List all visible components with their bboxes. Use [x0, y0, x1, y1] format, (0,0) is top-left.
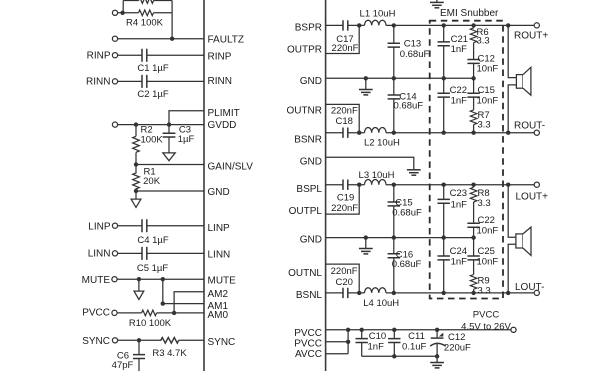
wire GND right1 rail [326, 77, 475, 79]
resistor R5 (partially cut at top) [123, 0, 172, 3]
svg-text:1nF: 1nF [451, 96, 468, 107]
capacitor C2 [142, 75, 147, 88]
wire speaker R bottom drop [508, 85, 516, 133]
capacitor C12 electrolytic [430, 330, 446, 357]
svg-text:0.68uF: 0.68uF [392, 208, 422, 219]
terminal SYNC [112, 338, 117, 343]
svg-text:PVCC: PVCC [82, 308, 110, 319]
capacitor C6 [133, 340, 145, 371]
wire PVCC to R10 [117, 312, 142, 314]
node C21 bottom junction [442, 76, 446, 80]
wire BSNL [326, 292, 343, 294]
op-amp U1 IC body right edge [325, 0, 327, 371]
terminal PVCC left [112, 310, 117, 315]
capacitor C16 [388, 238, 400, 293]
node C21 top junction [442, 23, 446, 27]
wire C19 to L3 [348, 184, 365, 186]
svg-text:OUTNR: OUTNR [286, 106, 322, 117]
wire RINN right [147, 80, 204, 82]
svg-text:RINP: RINP [87, 51, 111, 62]
node C11 top junction [392, 328, 396, 332]
terminal FAULTZ [112, 36, 117, 41]
wire GND right3 rail [326, 237, 475, 239]
wire R5 left vertical [122, 1, 124, 13]
capacitor C15 snubber [467, 78, 479, 110]
node C11 bottom junction [392, 354, 396, 358]
node GAIN/R1 junction [134, 162, 138, 166]
node OUTNL/BSNL junction [357, 291, 361, 295]
capacitor C4 [142, 219, 147, 232]
svg-text:1nF: 1nF [451, 257, 468, 268]
capacitor C25 [467, 238, 479, 275]
wire caps ground rail [362, 355, 437, 357]
node GND rail gnd junction [364, 76, 368, 80]
node C10 top junction [360, 328, 364, 332]
wire GAIN/SLV [136, 164, 204, 166]
svg-text:C1 1µF: C1 1µF [137, 63, 169, 74]
wire MUTE to AM1 vertical [162, 279, 164, 303]
inductor L1 [365, 20, 387, 25]
wire OUTNL jog [326, 264, 360, 293]
svg-text:GND: GND [300, 157, 322, 168]
svg-text:3.3: 3.3 [477, 36, 490, 47]
wire AM2 [174, 292, 204, 313]
svg-text:L2 10uH: L2 10uH [364, 138, 400, 149]
svg-text:SYNC: SYNC [82, 336, 110, 347]
wire GND left [136, 190, 204, 192]
svg-text:OUTPL: OUTPL [289, 206, 323, 217]
svg-text:L3 10uH: L3 10uH [359, 170, 395, 181]
svg-text:1µF: 1µF [178, 134, 195, 145]
wire OUTPR jog [326, 25, 360, 53]
svg-text:SYNC: SYNC [208, 337, 236, 348]
node C22 bottom junction [442, 131, 446, 135]
node speaker L top junction [506, 183, 510, 187]
svg-text:OUTPR: OUTPR [287, 45, 322, 56]
svg-text:LOUT-: LOUT- [515, 282, 544, 293]
EMI snubber dashed box [430, 21, 503, 299]
wire L1 to ROUT+ [386, 24, 534, 26]
wire BSNR [326, 132, 343, 134]
wire R10 to AM0 [157, 312, 175, 314]
wire SYNC left [118, 339, 162, 341]
svg-text:C15: C15 [395, 197, 412, 208]
node GVDD/R2 junction [134, 122, 138, 126]
wire BSPR [326, 24, 343, 26]
capacitor C10 [356, 330, 368, 357]
wire AM0 right [174, 312, 204, 314]
terminal MUTE [112, 277, 117, 282]
svg-text:BSNR: BSNR [294, 134, 322, 145]
svg-text:GND: GND [208, 187, 230, 198]
svg-text:C22: C22 [478, 215, 495, 226]
svg-text:RINN: RINN [208, 76, 232, 87]
svg-text:L1 10uH: L1 10uH [360, 8, 396, 19]
C12 polarity mark [439, 333, 444, 337]
node speaker R top junction [506, 23, 510, 27]
ground top-right symbol [430, 0, 444, 8]
node C14 bottom junction [392, 131, 396, 135]
wire GVDD [118, 124, 204, 126]
wire L2 to ROUT- [386, 132, 534, 134]
svg-text:R10 100K: R10 100K [129, 318, 172, 329]
node GND3 gnd junction [364, 235, 368, 239]
inductor L4 [365, 288, 387, 293]
svg-text:AM0: AM0 [208, 310, 229, 321]
terminal top-left [112, 10, 117, 15]
svg-text:C18: C18 [335, 116, 352, 127]
svg-text:0.1uF: 0.1uF [402, 341, 426, 352]
node C24 bottom junction [442, 291, 446, 295]
svg-text:LOUT+: LOUT+ [516, 192, 549, 203]
svg-text:10nF: 10nF [477, 96, 499, 107]
svg-text:AM2: AM2 [208, 289, 229, 300]
svg-text:3.3: 3.3 [478, 198, 491, 209]
svg-text:220nF: 220nF [332, 43, 359, 54]
wire C17 to L1 node [348, 24, 365, 26]
wire PVCC2 [326, 341, 349, 343]
node C15 top junction [392, 183, 396, 187]
ground MUTE triangle [134, 279, 144, 299]
node R9 bottom junction [471, 291, 475, 295]
svg-text:C24: C24 [450, 246, 467, 257]
svg-text:FAULTZ: FAULTZ [208, 34, 244, 45]
svg-text:3.3: 3.3 [478, 120, 491, 131]
node MUTE/gnd junction [137, 277, 141, 281]
svg-text:GND: GND [300, 76, 322, 87]
node R7 bottom junction [471, 131, 475, 135]
inductor L3 [365, 179, 387, 184]
ground PVCC rail symbol [430, 356, 444, 368]
capacitor C1 [142, 49, 147, 62]
capacitor C11 [388, 330, 400, 357]
svg-text:PLIMIT: PLIMIT [208, 108, 240, 119]
svg-text:20K: 20K [143, 176, 161, 187]
svg-text:ROUT+: ROUT+ [514, 31, 548, 42]
node C12 bottom junction [471, 76, 475, 80]
capacitor C3 [163, 125, 176, 153]
svg-text:RINN: RINN [86, 77, 110, 88]
svg-text:LINN: LINN [88, 249, 111, 260]
node C23 top junction [442, 183, 446, 187]
svg-text:1nF: 1nF [368, 341, 385, 352]
node AM0/AM2 junction [172, 311, 176, 315]
wire speaker L top drop [508, 185, 516, 238]
speaker R body [516, 75, 523, 89]
svg-text:PVCC: PVCC [294, 339, 322, 350]
wire RINP right [147, 54, 204, 56]
node C15/C16 junction [392, 235, 396, 239]
resistor R4 [139, 10, 154, 16]
svg-text:LINN: LINN [208, 249, 231, 260]
terminal RINN [112, 79, 117, 84]
svg-text:1nF: 1nF [451, 44, 468, 55]
terminal LINN [112, 251, 117, 256]
svg-text:BSPL: BSPL [296, 184, 322, 195]
wire R5/R4 right vertical to FAULTZ [171, 1, 173, 39]
node OUTPR junction [357, 23, 361, 27]
node C23 bottom junction [442, 235, 446, 239]
svg-text:PVCC: PVCC [473, 310, 500, 321]
svg-text:MUTE: MUTE [82, 275, 111, 286]
node MUTE/AM1 junction [161, 277, 165, 281]
node GND/R1 junction [134, 189, 138, 193]
terminal LINP [112, 223, 117, 228]
node C13 top junction [392, 23, 396, 27]
wire PVCC bus vertical [347, 330, 349, 354]
svg-text:220nF: 220nF [331, 203, 358, 214]
svg-text:C23: C23 [450, 188, 467, 199]
wire L4 to LOUT- [386, 292, 534, 294]
capacitor C17 [343, 20, 348, 30]
node R6 top junction [471, 23, 475, 27]
svg-text:0.68uF: 0.68uF [392, 259, 422, 270]
wire PVCC1 [326, 329, 511, 331]
svg-text:220nF: 220nF [331, 266, 358, 277]
capacitor C24 [438, 238, 450, 293]
svg-text:C4 1µF: C4 1µF [137, 235, 169, 246]
svg-text:10nF: 10nF [477, 64, 499, 75]
capacitor C5 [142, 247, 147, 260]
inductor L2 [365, 127, 387, 132]
wire AVCC [326, 353, 349, 355]
wire MUTE [117, 278, 204, 280]
ground C3 triangle [163, 153, 175, 161]
speaker L horn [523, 227, 531, 255]
svg-text:C10: C10 [369, 331, 386, 342]
node C12 top junction [435, 328, 439, 332]
svg-text:ROUT-: ROUT- [514, 121, 545, 132]
terminal LOUT- [534, 290, 539, 295]
svg-text:RINP: RINP [208, 52, 232, 63]
svg-text:LINP: LINP [208, 223, 231, 234]
svg-text:100K: 100K [141, 134, 164, 145]
resistor R7 [470, 110, 477, 133]
svg-text:BSNL: BSNL [296, 290, 323, 301]
node speaker R bottom junction [506, 131, 510, 135]
node FAULTZ junction [170, 37, 174, 41]
wire OUTPL jog [326, 185, 360, 214]
capacitor C22 snubber lower [467, 223, 479, 237]
capacitor C14 [388, 78, 400, 132]
svg-text:GVDD: GVDD [208, 120, 237, 131]
terminal ROUT+ [534, 23, 539, 28]
resistor R9 [470, 275, 477, 293]
terminal PVCC supply [511, 327, 516, 332]
wire FAULTZ [118, 38, 204, 40]
svg-text:C20: C20 [335, 277, 352, 288]
resistor R1 [133, 165, 140, 192]
wire R3 to SYNC pin [179, 339, 204, 341]
capacitor C21 [438, 25, 450, 78]
svg-text:220nF: 220nF [331, 105, 358, 116]
svg-text:1nF: 1nF [451, 200, 468, 211]
node bus top junction [346, 328, 350, 332]
node OUTPL junction [357, 183, 361, 187]
wire OUTNR jog [326, 104, 360, 132]
node R8 top junction [471, 183, 475, 187]
wire RINP left [118, 54, 142, 56]
svg-text:C2 1µF: C2 1µF [137, 89, 169, 100]
svg-text:10nF: 10nF [477, 257, 499, 268]
capacitor C23 [438, 185, 450, 238]
wire R4 right lead [154, 12, 173, 14]
wire C20 to L4 [348, 292, 365, 294]
capacitor C12 snubber [467, 60, 479, 79]
capacitor C19 [343, 180, 348, 190]
svg-text:R4 100K: R4 100K [126, 18, 164, 29]
node speaker L bottom junction [506, 291, 510, 295]
svg-text:C22: C22 [450, 85, 467, 96]
resistor R3 [161, 338, 179, 344]
node AM1 junction [161, 301, 165, 305]
node GVDD/C3 junction [167, 122, 171, 126]
node C13/C14 junction [392, 76, 396, 80]
svg-text:L4 10uH: L4 10uH [363, 298, 399, 309]
svg-text:3.3: 3.3 [478, 286, 491, 297]
svg-text:47pF: 47pF [112, 360, 134, 371]
wire BSPL [326, 184, 343, 186]
svg-text:GAIN/SLV: GAIN/SLV [208, 161, 254, 172]
capacitor C18 [343, 128, 348, 138]
svg-text:OUTNL: OUTNL [288, 268, 322, 279]
svg-text:C13: C13 [404, 39, 421, 50]
ground R1 triangle [131, 191, 141, 207]
terminal RINP [112, 53, 117, 58]
wire LINP right [147, 225, 204, 227]
svg-text:LINP: LINP [88, 222, 111, 233]
wire LINN left [118, 252, 142, 254]
node SYNC/C6 junction [137, 338, 141, 342]
wire GND right2 [326, 157, 414, 170]
speaker L body [516, 234, 523, 248]
svg-text:R3 4.7K: R3 4.7K [152, 348, 187, 359]
svg-text:C25: C25 [478, 246, 495, 257]
resistor R6 [470, 25, 477, 59]
op-amp U1 IC body left edge [203, 0, 205, 371]
terminal LOUT+ [534, 182, 539, 187]
capacitor C20 [343, 288, 348, 298]
wire speaker L bottom drop [508, 244, 516, 293]
speaker R horn [523, 67, 531, 95]
ground GND1 symbol [359, 78, 373, 95]
terminal GVDD [112, 122, 117, 127]
resistor R10 [142, 310, 157, 316]
svg-text:10nF: 10nF [477, 226, 499, 237]
capacitor C22 snubber top [438, 78, 450, 132]
svg-text:AVCC: AVCC [295, 349, 322, 360]
wire C18 to L2 [348, 132, 365, 134]
node OUTNR/BSNR junction [357, 131, 361, 135]
wire L3 to LOUT+ [386, 184, 534, 186]
ground GND3 symbol [359, 238, 373, 254]
node C22 lower bottom junction [471, 235, 475, 239]
svg-text:C5 1µF: C5 1µF [137, 263, 169, 274]
node C12 bottom junction [435, 354, 439, 358]
svg-text:4.5V to 26V: 4.5V to 26V [461, 322, 511, 333]
svg-text:MUTE: MUTE [208, 276, 237, 287]
resistor R2 [133, 125, 140, 165]
node bus PVCC2 junction [346, 340, 350, 344]
svg-text:C12: C12 [448, 332, 465, 343]
svg-text:BSPR: BSPR [295, 22, 322, 33]
node R4 left junction [120, 11, 124, 15]
node C16 bottom junction [392, 291, 396, 295]
capacitor C13 [388, 25, 400, 78]
wire R4 left lead [118, 12, 139, 14]
svg-text:0.68uF: 0.68uF [400, 49, 430, 60]
svg-text:GND: GND [300, 235, 322, 246]
svg-text:C11: C11 [408, 331, 425, 342]
svg-text:220uF: 220uF [444, 343, 471, 354]
wire PLIMIT [169, 111, 204, 125]
svg-text:PVCC: PVCC [294, 328, 322, 339]
svg-text:C15: C15 [478, 85, 495, 96]
capacitor C15 filter [388, 185, 400, 238]
wire LINN right [147, 252, 204, 254]
wire RINN left [118, 80, 142, 82]
terminal ROUT- [534, 130, 539, 135]
resistor R8 [470, 185, 477, 224]
wire LINP left [118, 225, 142, 227]
wire AM1 [163, 303, 204, 305]
ground GND2 symbol [407, 170, 421, 175]
wire speaker R top drop [508, 25, 516, 77]
svg-text:EMI Snubber: EMI Snubber [440, 8, 499, 19]
svg-text:0.68uF: 0.68uF [394, 100, 424, 111]
